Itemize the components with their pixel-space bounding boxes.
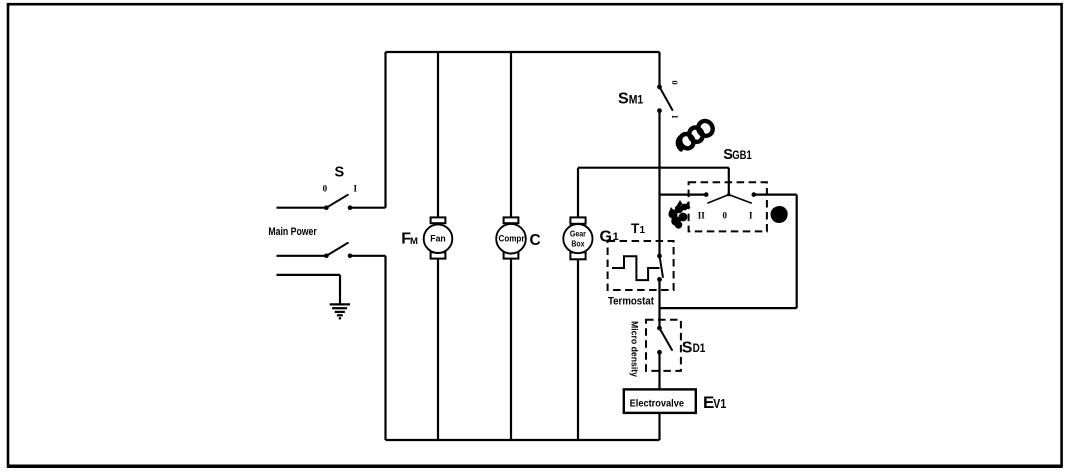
svg-text:Electrovalve: Electrovalve — [630, 398, 685, 410]
svg-text:Box: Box — [571, 239, 584, 249]
svg-text:M1: M1 — [629, 93, 644, 107]
svg-text:V1: V1 — [713, 397, 726, 411]
svg-text:1: 1 — [613, 231, 619, 243]
svg-text:GB1: GB1 — [732, 150, 752, 162]
svg-text:C: C — [530, 232, 541, 249]
svg-text:0: 0 — [723, 210, 728, 220]
svg-text:I: I — [353, 183, 357, 193]
svg-text:M: M — [410, 236, 418, 247]
svg-text:Fan: Fan — [430, 234, 446, 244]
svg-text:D1: D1 — [693, 341, 706, 355]
svg-text:Main Power: Main Power — [268, 226, 317, 238]
svg-text:0: 0 — [670, 80, 680, 84]
svg-text:Compr: Compr — [499, 234, 525, 244]
svg-text:Micro density: Micro density — [629, 321, 640, 378]
svg-text:S: S — [618, 91, 629, 108]
svg-text:I: I — [749, 210, 753, 220]
svg-text:Gear: Gear — [570, 229, 587, 239]
svg-text:S: S — [335, 165, 345, 181]
svg-text:G: G — [600, 229, 612, 246]
svg-text:S: S — [682, 340, 693, 357]
svg-text:0: 0 — [323, 184, 328, 194]
svg-text:Termostat: Termostat — [608, 296, 654, 308]
svg-text:II: II — [698, 210, 706, 220]
svg-text:I: I — [670, 115, 680, 119]
svg-text:1: 1 — [640, 225, 646, 236]
